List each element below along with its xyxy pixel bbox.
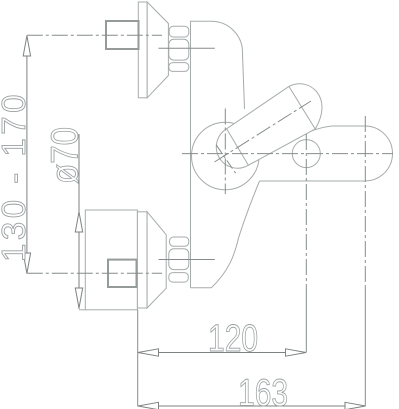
svg-text:163: 163 [238, 372, 288, 409]
svg-text:130 - 170: 130 - 170 [0, 91, 32, 262]
svg-text:ø70: ø70 [43, 127, 86, 184]
svg-text:120: 120 [208, 318, 258, 360]
